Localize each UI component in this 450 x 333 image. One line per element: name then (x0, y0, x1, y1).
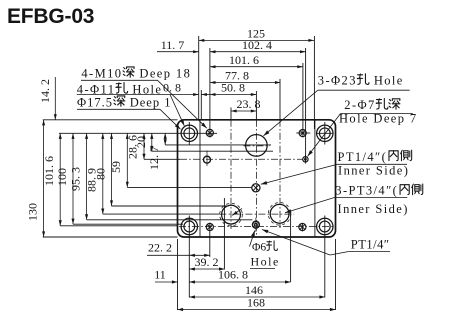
svg-text:39. 2: 39. 2 (195, 255, 219, 269)
svg-text:4-M10: 4-M10 (81, 66, 122, 80)
svg-text:Inner Side): Inner Side) (338, 202, 409, 216)
svg-text:106. 8: 106. 8 (218, 267, 248, 281)
svg-text:130: 130 (26, 203, 40, 221)
svg-text:11: 11 (154, 267, 166, 281)
svg-text:59: 59 (109, 161, 123, 173)
svg-text:Φ6: Φ6 (252, 242, 266, 254)
svg-text:11. 7: 11. 7 (161, 38, 185, 52)
svg-text:PT1/4″(: PT1/4″( (338, 150, 388, 164)
svg-text:PT1/4″: PT1/4″ (351, 237, 390, 251)
svg-text:Hole: Hole (369, 74, 403, 88)
svg-text:22. 2: 22. 2 (148, 241, 172, 255)
svg-text:0. 8: 0. 8 (163, 81, 181, 95)
svg-text:50. 8: 50. 8 (221, 81, 245, 95)
svg-text:Hole: Hole (251, 255, 280, 269)
svg-text:80: 80 (94, 168, 108, 180)
svg-text:Deep 1: Deep 1 (126, 95, 172, 109)
svg-text:14. 2: 14. 2 (38, 79, 52, 103)
svg-text:3-Φ23: 3-Φ23 (318, 74, 357, 88)
svg-text:Inner Side): Inner Side) (338, 163, 409, 177)
svg-text:3-PT3/4″(: 3-PT3/4″( (335, 184, 398, 198)
svg-text:102. 4: 102. 4 (242, 38, 272, 52)
svg-text:100: 100 (55, 168, 69, 186)
svg-text:EFBG-03: EFBG-03 (7, 5, 94, 28)
svg-text:168: 168 (247, 296, 265, 310)
svg-text:Φ17.5: Φ17.5 (77, 95, 113, 109)
svg-text:23. 8: 23. 8 (237, 97, 261, 111)
svg-text:2-Φ7: 2-Φ7 (344, 98, 375, 112)
svg-text:Deep 18: Deep 18 (135, 66, 191, 80)
svg-text:101. 6: 101. 6 (229, 53, 259, 67)
svg-text:95. 3: 95. 3 (68, 167, 82, 191)
svg-text:12. 7: 12. 7 (147, 146, 161, 170)
